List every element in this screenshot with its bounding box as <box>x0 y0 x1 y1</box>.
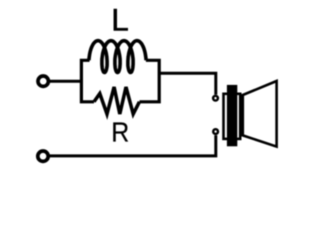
wire left side of parallel box <box>81 60 94 102</box>
wire parallel box to speaker top terminal <box>159 73 216 94</box>
terminal T1 (top-left input) <box>38 76 48 86</box>
svg-text:L: L <box>111 2 129 38</box>
speaker top terminal circle <box>213 96 218 101</box>
svg-text:R: R <box>111 116 129 147</box>
resistor R zigzag <box>94 87 139 114</box>
terminal T2 (bottom-left input) <box>38 151 48 161</box>
speaker LS1 magnet rectangle <box>224 94 241 139</box>
wire speaker bottom terminal to terminal T2 <box>49 135 216 156</box>
wire coil exit to right side of box <box>139 60 159 102</box>
wire T1 to parallel box <box>49 80 83 83</box>
speaker bottom terminal circle <box>213 129 218 134</box>
inductor L coil <box>89 41 146 73</box>
speaker LS1 cone <box>243 81 277 147</box>
speaker LS1 voice-coil bar <box>227 85 237 146</box>
